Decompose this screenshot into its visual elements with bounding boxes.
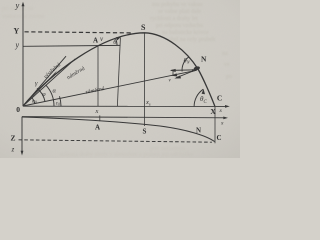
lower deviation curve z(x) [22, 117, 215, 142]
small tick between reference lines at N [172, 70, 174, 77]
bleed-through text smudges [2, 2, 232, 158]
trajectory curve (ballistic, in air) [23, 33, 215, 107]
line of sight (zamerna) to N [23, 70, 197, 106]
angle arc theta_C at impact [194, 89, 203, 107]
angle arc alpha (r=31) [46, 85, 54, 106]
dark convergence blob at N [193, 66, 200, 71]
barrel wedge at origin [23, 71, 57, 107]
paper background [0, 0, 240, 158]
paper grain [0, 0, 1, 1]
zamerna arrowhead at N [192, 69, 198, 72]
dashed line Z (depth level) [19, 140, 213, 142]
tick at A projection (lower) [99, 115, 101, 121]
theta arc at A [116, 39, 117, 45]
y-axis arrowhead [22, 2, 25, 6]
vertical drop from impact C (x=215) [214, 107, 216, 144]
lower diagram: z-axis down [21, 117, 23, 154]
solid line y (height of point A) [23, 44, 121, 47]
vertical drop from tangent end [117, 38, 120, 106]
vertical line from apex S (x=144.5) [144, 33, 146, 126]
line of departure (vystrelna) [23, 56, 66, 106]
x-axis [23, 105, 228, 107]
vertical drop from A (x=98) [97, 46, 99, 106]
dashed line Y (max height level) [25, 32, 132, 33]
velocity arrowhead at A tangent [116, 37, 121, 41]
lower baseline arrowhead [223, 117, 228, 120]
horizontal reference arrow at N [171, 69, 197, 72]
z-axis arrowhead [21, 151, 24, 156]
angle arc epsilon0 (r=38) [60, 96, 62, 106]
third short arrow at N (velocity reference) [176, 70, 197, 78]
backward arrowhead on zamerna near N [171, 73, 178, 76]
angle arc theta_N at N [182, 57, 189, 72]
angle arc phi (r=22.5) [37, 88, 45, 101]
x-axis arrowhead [225, 105, 230, 108]
y-axis [22, 4, 24, 107]
line of elevation (namerna) [23, 59, 75, 106]
arrowhead on theta_C arc [202, 89, 205, 94]
lower diagram: top baseline [22, 117, 226, 118]
angle arc alpha0 (r=10) [32, 98, 35, 104]
